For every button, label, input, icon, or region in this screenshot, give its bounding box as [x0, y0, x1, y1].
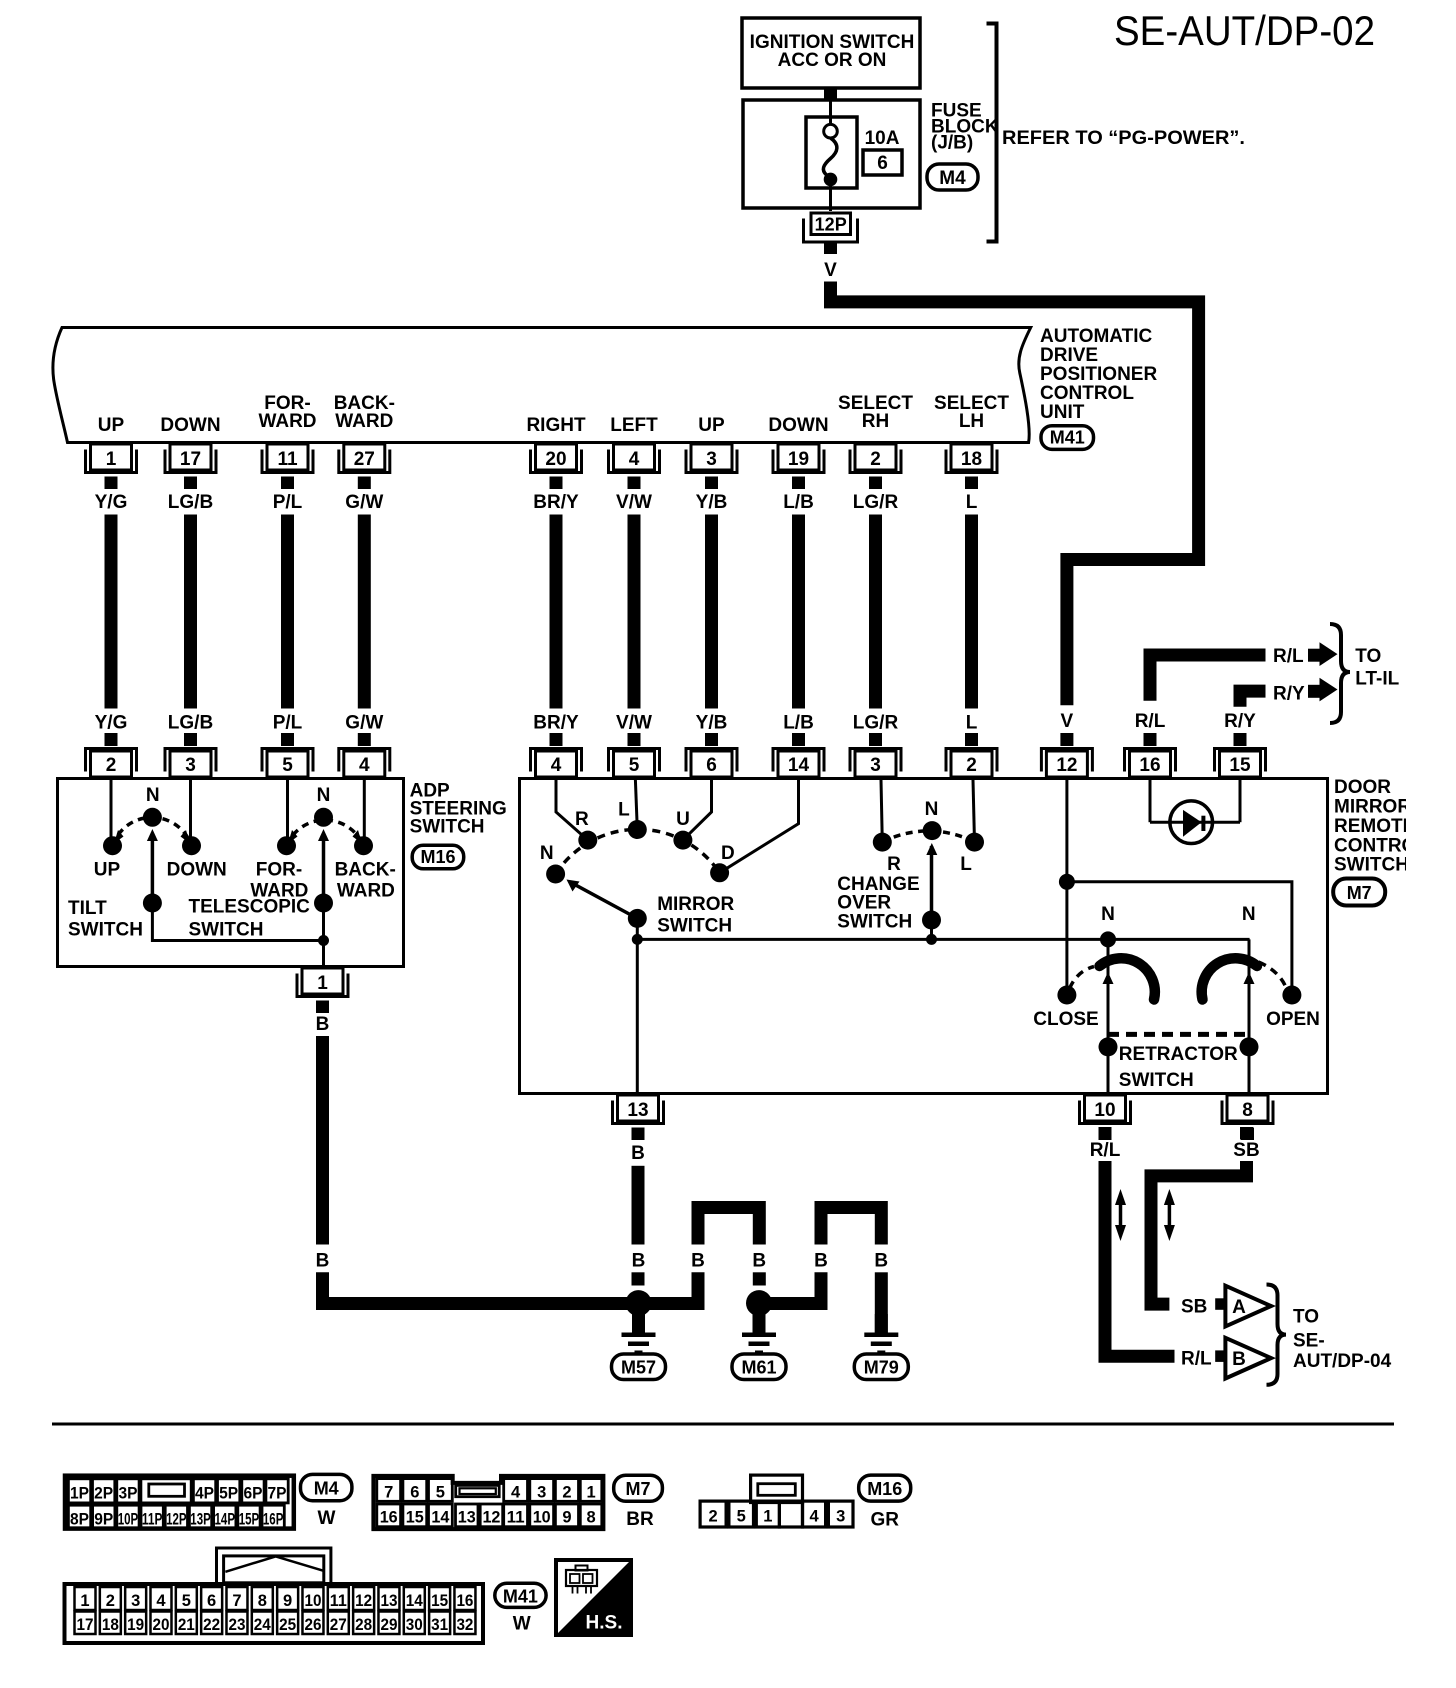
- svg-text:V/W: V/W: [616, 713, 652, 734]
- svg-text:5: 5: [282, 755, 293, 776]
- svg-text:N: N: [540, 843, 554, 864]
- svg-text:LG/R: LG/R: [853, 713, 899, 734]
- svg-text:BR: BR: [626, 1509, 654, 1530]
- svg-text:30: 30: [406, 1616, 423, 1634]
- svg-text:AUTOMATIC: AUTOMATIC: [1040, 326, 1153, 347]
- svg-text:5: 5: [629, 755, 640, 776]
- svg-text:SB: SB: [1181, 1296, 1207, 1317]
- svg-text:SE-AUT/DP-02: SE-AUT/DP-02: [1114, 7, 1375, 54]
- svg-text:TILT: TILT: [68, 898, 107, 919]
- svg-text:20: 20: [152, 1616, 169, 1634]
- svg-text:2: 2: [870, 449, 881, 470]
- svg-text:3: 3: [131, 1592, 140, 1610]
- svg-text:Y/B: Y/B: [696, 713, 728, 734]
- svg-text:M4: M4: [939, 168, 966, 189]
- svg-text:R/L: R/L: [1135, 711, 1166, 732]
- svg-text:3P: 3P: [118, 1484, 137, 1502]
- svg-text:CONTROL: CONTROL: [1040, 383, 1134, 404]
- svg-text:10P: 10P: [118, 1510, 139, 1528]
- svg-text:3: 3: [870, 755, 881, 776]
- svg-text:7: 7: [384, 1483, 393, 1501]
- svg-text:11P: 11P: [142, 1510, 163, 1528]
- svg-text:10: 10: [533, 1509, 551, 1527]
- svg-text:SWITCH: SWITCH: [837, 912, 912, 933]
- svg-text:L/B: L/B: [783, 713, 814, 734]
- svg-text:Y/G: Y/G: [95, 713, 128, 734]
- svg-text:15P: 15P: [239, 1510, 260, 1528]
- svg-text:AUT/DP-04: AUT/DP-04: [1293, 1351, 1392, 1372]
- svg-text:6: 6: [207, 1592, 216, 1610]
- svg-text:27: 27: [330, 1616, 347, 1634]
- svg-text:M16: M16: [420, 847, 455, 867]
- svg-text:11: 11: [277, 449, 298, 470]
- svg-text:RIGHT: RIGHT: [526, 415, 586, 436]
- svg-text:4: 4: [156, 1592, 166, 1610]
- svg-text:18: 18: [961, 449, 982, 470]
- svg-text:TELESCOPIC: TELESCOPIC: [189, 897, 311, 918]
- svg-text:B: B: [1232, 1349, 1246, 1370]
- svg-text:LG/B: LG/B: [168, 713, 213, 734]
- svg-text:LG/B: LG/B: [168, 492, 213, 513]
- svg-text:14: 14: [431, 1509, 450, 1527]
- svg-text:8: 8: [586, 1509, 595, 1527]
- svg-text:3: 3: [836, 1508, 845, 1526]
- svg-text:9: 9: [562, 1509, 571, 1527]
- svg-text:SWITCH: SWITCH: [189, 920, 264, 941]
- svg-text:8P: 8P: [70, 1510, 89, 1528]
- svg-text:14P: 14P: [215, 1510, 236, 1528]
- svg-text:4: 4: [809, 1508, 819, 1526]
- svg-text:28: 28: [355, 1616, 372, 1634]
- svg-text:21: 21: [178, 1616, 195, 1634]
- svg-text:1: 1: [586, 1483, 595, 1501]
- svg-text:SWITCH: SWITCH: [1119, 1070, 1194, 1091]
- svg-text:19: 19: [788, 449, 809, 470]
- svg-text:1: 1: [80, 1592, 89, 1610]
- svg-text:LG/R: LG/R: [853, 492, 899, 513]
- svg-text:OPEN: OPEN: [1266, 1009, 1320, 1030]
- svg-text:SWITCH: SWITCH: [68, 920, 143, 941]
- svg-text:20: 20: [545, 449, 566, 470]
- svg-text:17: 17: [77, 1616, 94, 1634]
- svg-text:OVER: OVER: [837, 893, 891, 914]
- svg-text:G/W: G/W: [345, 492, 383, 513]
- svg-text:9P: 9P: [94, 1510, 113, 1528]
- svg-text:17: 17: [180, 449, 201, 470]
- svg-text:8: 8: [258, 1592, 267, 1610]
- svg-text:B: B: [316, 1014, 330, 1035]
- svg-text:15: 15: [1229, 755, 1251, 776]
- svg-text:22: 22: [203, 1616, 220, 1634]
- svg-text:8: 8: [1242, 1100, 1253, 1121]
- svg-text:N: N: [1101, 904, 1115, 925]
- svg-text:RH: RH: [862, 411, 889, 432]
- svg-text:R/L: R/L: [1090, 1140, 1121, 1161]
- svg-text:11: 11: [330, 1592, 347, 1610]
- svg-text:6: 6: [877, 153, 888, 174]
- svg-text:DOWN: DOWN: [768, 415, 828, 436]
- svg-text:13: 13: [458, 1509, 476, 1527]
- svg-text:29: 29: [380, 1616, 397, 1634]
- svg-text:5: 5: [436, 1483, 445, 1501]
- svg-text:10: 10: [1094, 1100, 1115, 1121]
- svg-text:18: 18: [102, 1616, 119, 1634]
- svg-text:WARD: WARD: [337, 881, 395, 902]
- svg-text:1: 1: [317, 973, 328, 994]
- svg-text:W: W: [318, 1508, 336, 1529]
- svg-text:LT-IL: LT-IL: [1355, 668, 1399, 689]
- svg-text:DOWN: DOWN: [167, 859, 227, 880]
- svg-text:RETRACTOR: RETRACTOR: [1119, 1044, 1238, 1065]
- svg-text:L: L: [966, 713, 978, 734]
- svg-text:R/Y: R/Y: [1224, 711, 1256, 732]
- svg-text:DOWN: DOWN: [160, 415, 220, 436]
- svg-text:UP: UP: [94, 859, 121, 880]
- svg-text:7P: 7P: [268, 1484, 287, 1502]
- svg-text:WARD: WARD: [335, 411, 393, 432]
- svg-text:N: N: [146, 785, 160, 806]
- svg-text:B: B: [316, 1251, 330, 1272]
- svg-text:R/L: R/L: [1181, 1349, 1212, 1370]
- svg-text:L: L: [960, 854, 972, 875]
- svg-text:4: 4: [629, 449, 640, 470]
- svg-text:SWITCH: SWITCH: [410, 817, 485, 838]
- svg-text:R: R: [887, 854, 901, 875]
- svg-text:L: L: [618, 800, 630, 821]
- svg-text:5: 5: [737, 1508, 746, 1526]
- svg-text:N: N: [317, 785, 331, 806]
- svg-text:4: 4: [551, 755, 562, 776]
- svg-text:GR: GR: [870, 1510, 899, 1531]
- svg-text:FOR-: FOR-: [256, 859, 302, 880]
- svg-text:12P: 12P: [815, 215, 847, 235]
- svg-text:2: 2: [106, 755, 117, 776]
- svg-text:14: 14: [788, 755, 810, 776]
- svg-text:SWITCH: SWITCH: [1334, 854, 1409, 875]
- svg-text:27: 27: [354, 449, 375, 470]
- svg-text:19: 19: [127, 1616, 144, 1634]
- svg-text:L/B: L/B: [783, 492, 814, 513]
- svg-text:LEFT: LEFT: [610, 415, 658, 436]
- svg-text:R/Y: R/Y: [1273, 683, 1305, 704]
- svg-text:2: 2: [966, 755, 977, 776]
- svg-text:M7: M7: [625, 1479, 650, 1499]
- svg-text:25: 25: [279, 1616, 296, 1634]
- svg-text:R: R: [575, 809, 589, 830]
- svg-text:B: B: [632, 1251, 646, 1272]
- svg-text:REFER TO “PG-POWER”.: REFER TO “PG-POWER”.: [1002, 128, 1245, 149]
- svg-text:H.S.: H.S.: [586, 1612, 623, 1633]
- svg-text:7: 7: [232, 1592, 241, 1610]
- svg-text:10A: 10A: [865, 128, 900, 149]
- svg-text:5: 5: [182, 1592, 191, 1610]
- svg-text:12: 12: [1056, 755, 1077, 776]
- svg-text:15: 15: [431, 1592, 448, 1610]
- svg-text:1P: 1P: [70, 1484, 89, 1502]
- svg-text:5P: 5P: [219, 1484, 238, 1502]
- svg-text:BR/Y: BR/Y: [533, 492, 579, 513]
- svg-text:31: 31: [431, 1616, 448, 1634]
- svg-text:MIRROR: MIRROR: [1334, 797, 1411, 818]
- svg-text:11: 11: [507, 1509, 525, 1527]
- svg-text:Y/B: Y/B: [696, 492, 728, 513]
- svg-text:POSITIONER: POSITIONER: [1040, 364, 1157, 385]
- svg-text:L: L: [966, 492, 978, 513]
- svg-text:12: 12: [355, 1592, 372, 1610]
- svg-text:B: B: [631, 1143, 645, 1164]
- svg-text:1: 1: [763, 1508, 772, 1526]
- svg-text:UNIT: UNIT: [1040, 402, 1085, 423]
- svg-text:1: 1: [106, 449, 117, 470]
- svg-text:6P: 6P: [243, 1484, 262, 1502]
- svg-text:2: 2: [562, 1483, 571, 1501]
- svg-text:4P: 4P: [195, 1484, 214, 1502]
- svg-text:DOOR: DOOR: [1334, 777, 1391, 798]
- svg-text:14: 14: [406, 1592, 424, 1610]
- svg-text:6: 6: [410, 1483, 419, 1501]
- svg-text:V: V: [1061, 711, 1074, 732]
- svg-text:6: 6: [706, 755, 717, 776]
- svg-text:M61: M61: [741, 1358, 776, 1378]
- svg-text:16: 16: [1139, 755, 1160, 776]
- svg-text:12: 12: [482, 1509, 500, 1527]
- svg-text:P/L: P/L: [273, 492, 303, 513]
- svg-text:Y/G: Y/G: [95, 492, 128, 513]
- svg-text:M57: M57: [621, 1358, 656, 1378]
- svg-text:B: B: [752, 1251, 766, 1272]
- svg-text:N: N: [925, 799, 939, 820]
- svg-text:16P: 16P: [263, 1510, 284, 1528]
- svg-text:3: 3: [537, 1483, 546, 1501]
- svg-text:SWITCH: SWITCH: [657, 915, 732, 936]
- svg-text:CLOSE: CLOSE: [1033, 1009, 1098, 1030]
- svg-text:SB: SB: [1233, 1140, 1259, 1161]
- svg-text:3: 3: [706, 449, 717, 470]
- svg-text:9: 9: [283, 1592, 292, 1610]
- svg-text:BACK-: BACK-: [335, 859, 396, 880]
- svg-text:32: 32: [456, 1616, 473, 1634]
- svg-text:UP: UP: [98, 415, 125, 436]
- svg-text:W: W: [513, 1614, 531, 1635]
- svg-text:M79: M79: [864, 1358, 899, 1378]
- svg-text:MIRROR: MIRROR: [657, 894, 734, 915]
- svg-text:10: 10: [304, 1592, 321, 1610]
- svg-text:2P: 2P: [94, 1484, 113, 1502]
- svg-text:V/W: V/W: [616, 492, 652, 513]
- svg-text:A: A: [1232, 1297, 1246, 1318]
- svg-text:B: B: [874, 1251, 888, 1272]
- svg-text:ACC OR ON: ACC OR ON: [778, 50, 887, 71]
- svg-text:B: B: [691, 1251, 705, 1272]
- svg-text:13: 13: [627, 1100, 648, 1121]
- svg-text:SE-: SE-: [1293, 1331, 1325, 1352]
- svg-text:4: 4: [511, 1483, 521, 1501]
- svg-text:13: 13: [380, 1592, 397, 1610]
- svg-text:LH: LH: [959, 411, 984, 432]
- svg-text:TO: TO: [1355, 646, 1381, 667]
- svg-text:R/L: R/L: [1273, 646, 1304, 667]
- svg-text:(J/B): (J/B): [931, 133, 973, 154]
- svg-text:2: 2: [106, 1592, 115, 1610]
- svg-text:V: V: [824, 260, 837, 281]
- svg-text:M4: M4: [314, 1478, 339, 1498]
- svg-text:UP: UP: [698, 415, 725, 436]
- svg-text:4: 4: [359, 755, 370, 776]
- svg-text:BR/Y: BR/Y: [533, 713, 579, 734]
- svg-text:16: 16: [456, 1592, 473, 1610]
- svg-text:3: 3: [185, 755, 196, 776]
- svg-text:15: 15: [406, 1509, 424, 1527]
- svg-text:16: 16: [380, 1509, 398, 1527]
- svg-text:U: U: [676, 809, 690, 830]
- svg-text:23: 23: [228, 1616, 245, 1634]
- svg-text:13P: 13P: [190, 1510, 211, 1528]
- svg-text:M16: M16: [867, 1479, 902, 1499]
- svg-text:P/L: P/L: [273, 713, 303, 734]
- svg-text:M7: M7: [1347, 883, 1372, 903]
- svg-text:12P: 12P: [166, 1510, 187, 1528]
- svg-text:G/W: G/W: [345, 713, 383, 734]
- svg-text:24: 24: [254, 1616, 272, 1634]
- svg-text:M41: M41: [1050, 428, 1085, 448]
- svg-text:M41: M41: [503, 1586, 538, 1606]
- svg-text:D: D: [721, 843, 735, 864]
- svg-text:WARD: WARD: [258, 411, 316, 432]
- svg-text:2: 2: [709, 1508, 718, 1526]
- svg-text:B: B: [814, 1251, 828, 1272]
- svg-text:DRIVE: DRIVE: [1040, 345, 1098, 366]
- svg-text:N: N: [1242, 904, 1256, 925]
- svg-text:26: 26: [304, 1616, 321, 1634]
- svg-text:TO: TO: [1293, 1307, 1319, 1328]
- svg-text:REMOTE: REMOTE: [1334, 816, 1415, 837]
